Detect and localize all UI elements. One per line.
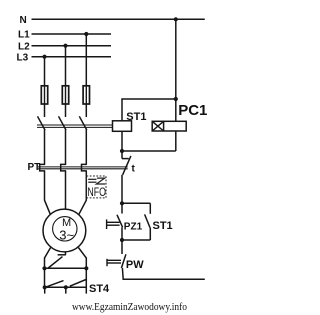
fixed bar of brake contact <box>58 254 66 256</box>
svg-text:PW: PW <box>126 259 144 271</box>
fuse F3 <box>83 86 89 104</box>
contactor ST1 main pole 2 <box>59 116 67 130</box>
aux contact ST1 blade <box>145 214 150 227</box>
node tie right <box>84 266 88 270</box>
label ST1 coil <box>126 111 146 123</box>
wire pole1 to thermal PT <box>44 130 46 165</box>
contactor ST1 mechanical linkage <box>37 125 113 127</box>
thermal NC contact t lower wire <box>121 175 123 203</box>
wire fuse F2 to contactor <box>65 104 67 117</box>
svg-text:ST1: ST1 <box>153 220 173 232</box>
wire L3 drop to fuse F1 <box>44 57 46 86</box>
svg-text:L3: L3 <box>17 53 29 64</box>
node coil feed <box>174 97 178 101</box>
pushbutton PW lower wire <box>122 268 204 279</box>
wire pole2 to thermal PT <box>65 130 67 165</box>
switch ST4 rail <box>43 286 87 288</box>
wire fuse F3 to contactor <box>85 104 87 117</box>
svg-text:PZ1: PZ1 <box>124 221 143 232</box>
motor M outer circle <box>43 209 86 252</box>
wire L3 rail <box>32 56 112 58</box>
wire PC1 bottom <box>175 131 177 151</box>
wire joining coil and PC1 bottoms <box>122 150 176 152</box>
wire L2 rail <box>32 45 112 47</box>
node ST4 left <box>43 285 47 289</box>
wire PT to motor phase 1 <box>45 171 51 214</box>
contactor ST1 main pole 1 <box>38 116 46 130</box>
label ST1 aux <box>153 220 173 232</box>
label PZ1 <box>124 221 143 232</box>
svg-text:L2: L2 <box>18 42 30 53</box>
thermal relay PT trip linkage double line <box>38 167 128 169</box>
wire L1 drop to fuse F3 <box>85 34 87 86</box>
wire ST4 stub middle <box>65 287 67 293</box>
thermal NC contact t bar <box>122 158 129 160</box>
stamp EZ logo <box>88 178 105 184</box>
wire ST4 stub left <box>44 287 46 293</box>
wire PT to motor phase 2 <box>65 171 67 210</box>
pushbutton PZ1 lower wire <box>121 227 123 240</box>
wire left phase down to ST4 <box>44 268 46 287</box>
wire fuse F1 to contactor <box>44 104 46 117</box>
fuse F2 <box>62 86 68 104</box>
svg-text:www.EgzaminZawodowy.info: www.EgzaminZawodowy.info <box>72 301 187 313</box>
wire N rail <box>32 18 205 20</box>
wire motor exit middle <box>65 252 67 255</box>
pushbutton PZ1 upper wire <box>121 203 123 213</box>
label L3 <box>17 53 29 64</box>
wire L2 drop to fuse F2 <box>65 46 67 86</box>
wire L1 rail <box>32 33 112 35</box>
label motor M <box>62 217 71 229</box>
coil ST1 box <box>113 121 132 132</box>
switch ST4 blade 1 <box>47 281 64 287</box>
fuse F1 <box>41 86 47 104</box>
svg-text:ST4: ST4 <box>89 283 110 295</box>
pushbutton PW actuator <box>107 259 121 266</box>
label PC1 <box>178 102 207 119</box>
thermal relay PT heater 1 <box>40 164 45 171</box>
label L2 <box>18 42 30 53</box>
svg-text:NFO: NFO <box>87 185 106 199</box>
switch ST4 blade 2 <box>70 280 86 287</box>
brake contact blade <box>48 257 62 268</box>
svg-text:3~: 3~ <box>59 227 74 242</box>
lamp PC1 box <box>152 121 186 131</box>
pushbutton PW blade <box>121 254 126 268</box>
wire right phase down to ST4 <box>85 268 87 293</box>
contactor ST1 main pole 3 <box>79 116 87 130</box>
wire parallel right drop <box>149 203 151 214</box>
lamp PC1 X mark <box>152 121 163 131</box>
node L1 junction <box>84 32 88 36</box>
pushbutton PW upper wire <box>121 240 123 254</box>
thermal NC contact t blade <box>123 156 131 175</box>
thermal relay PT heater 3 <box>82 164 87 171</box>
node tie left <box>42 266 46 270</box>
svg-text:N: N <box>20 15 27 26</box>
aux contact ST1 lower wire <box>149 228 151 240</box>
coil ST1 top wire <box>122 99 176 121</box>
wire coil ST1 bottom <box>121 131 123 151</box>
pushbutton PZ1 actuator <box>107 219 120 229</box>
thermal relay PT heater 2 <box>61 164 66 171</box>
svg-text:ST1: ST1 <box>126 111 146 123</box>
svg-text:PC1: PC1 <box>178 102 207 119</box>
label t <box>132 164 136 175</box>
svg-text:t: t <box>132 164 136 175</box>
wire motor exit left <box>45 248 51 269</box>
EgzaminZawodowy info stamp dashed box <box>86 176 106 198</box>
node ST4 middle <box>64 285 68 289</box>
node parallel top <box>120 201 124 205</box>
svg-text:PT: PT <box>28 162 41 173</box>
label motor 3~ <box>59 227 74 242</box>
motor M inner circle <box>53 217 77 241</box>
node control join <box>120 149 124 153</box>
wire PT to motor phase 3 <box>79 171 86 214</box>
watermark www.EgzaminZawodowy.info <box>72 301 187 313</box>
node L3 junction <box>42 55 46 59</box>
label ST4 <box>89 283 110 295</box>
pushbutton PZ1 blade <box>117 215 123 228</box>
wire N drop to control circuit <box>175 19 177 121</box>
label PT <box>28 162 41 173</box>
label PW <box>126 259 144 271</box>
label L1 <box>18 30 30 41</box>
node parallel bottom <box>120 238 124 242</box>
thermal NC contact t upper wire <box>121 151 123 159</box>
wire pole3 to thermal PT <box>85 130 87 165</box>
node L2 junction <box>63 44 67 48</box>
wire tie bar row1 <box>45 267 87 269</box>
svg-text:L1: L1 <box>18 30 30 41</box>
stamp NFO text <box>87 185 106 199</box>
wire parallel bottom bar <box>122 239 150 241</box>
node N junction <box>174 17 178 21</box>
wire parallel top bar <box>122 202 150 204</box>
wire motor exit right <box>78 248 86 269</box>
label N <box>20 15 27 26</box>
